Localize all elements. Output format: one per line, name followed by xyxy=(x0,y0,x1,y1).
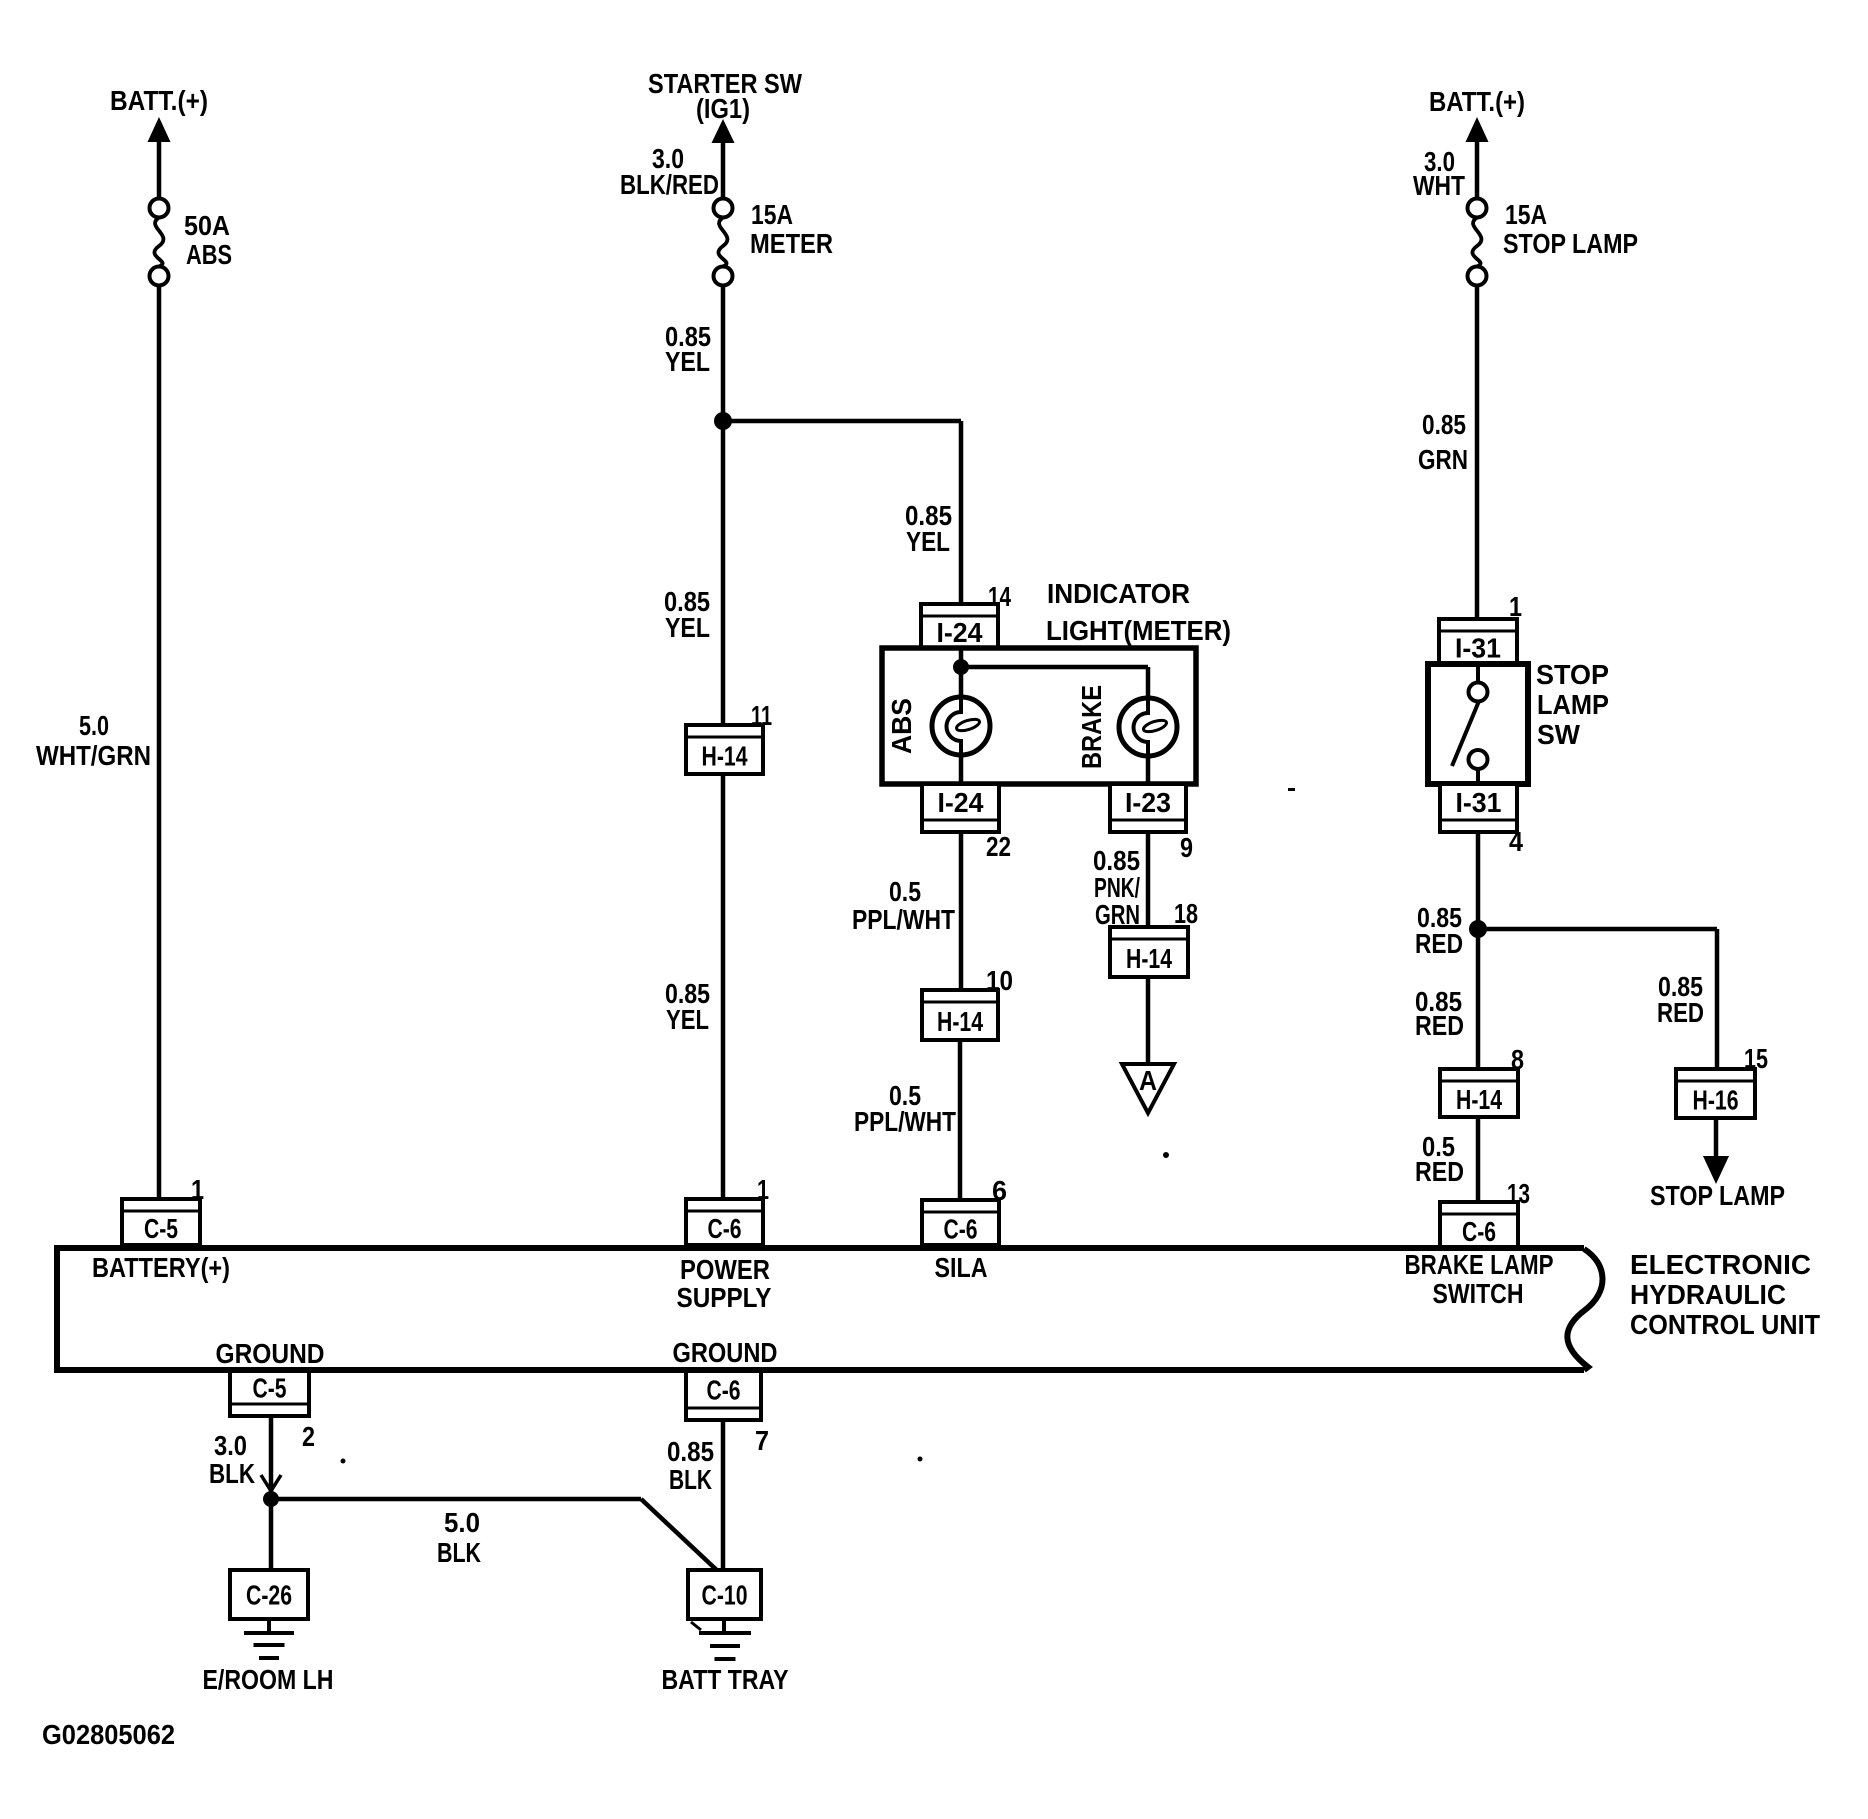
lamp ABS indicator xyxy=(932,697,990,755)
arrow to STOP LAMP xyxy=(1703,1156,1729,1184)
speck xyxy=(1288,788,1295,791)
svg-text:ABS: ABS xyxy=(886,698,917,754)
wire 0.5 PPL/WHT I-24 to H-14 pin 10 xyxy=(959,832,964,990)
svg-text:0.85: 0.85 xyxy=(667,1436,714,1467)
svg-text:BLK: BLK xyxy=(209,1458,255,1489)
svg-text:C-6: C-6 xyxy=(1462,1216,1496,1247)
svg-text:4: 4 xyxy=(1509,826,1523,857)
svg-text:GRN: GRN xyxy=(1418,444,1468,475)
svg-text:0.5: 0.5 xyxy=(889,876,921,907)
svg-text:BLK: BLK xyxy=(669,1464,712,1495)
connector H-14 pin 11 xyxy=(686,725,763,774)
wire ABS lamp to box bottom xyxy=(959,755,964,784)
connector C-6 pin 7 (ground) xyxy=(686,1371,761,1420)
ground symbol BATT TRAY xyxy=(699,1633,751,1659)
svg-text:2: 2 xyxy=(302,1421,315,1452)
connector I-24 pin 22 xyxy=(922,784,999,832)
svg-text:50A: 50A xyxy=(184,210,230,241)
svg-text:INDICATOR: INDICATOR xyxy=(1047,578,1190,609)
connector C-6 pin 1 (power supply) xyxy=(686,1199,763,1245)
svg-text:RED: RED xyxy=(1657,997,1704,1028)
wire 3.0 BLK C-5 to junction xyxy=(269,1416,274,1493)
arrow to BATT.(+) right xyxy=(1466,117,1489,142)
wire 0.85 YEL down to I-24 pin 14 xyxy=(959,421,964,604)
svg-text:22: 22 xyxy=(986,831,1011,862)
svg-text:5.0: 5.0 xyxy=(79,710,109,741)
svg-text:YEL: YEL xyxy=(906,526,950,557)
svg-text:ABS: ABS xyxy=(186,239,232,270)
svg-text:SWITCH: SWITCH xyxy=(1433,1278,1524,1309)
wire 0.85 PNK/GRN I-23 to H-14 pin 18 xyxy=(1146,832,1151,927)
svg-text:POWER: POWER xyxy=(680,1254,770,1285)
fuse 15A STOP LAMP xyxy=(1468,199,1487,286)
svg-text:CONTROL UNIT: CONTROL UNIT xyxy=(1630,1309,1820,1340)
arrow to BATT.(+) left xyxy=(148,117,171,142)
electronic hydraulic control unit U1 box xyxy=(57,1248,1584,1370)
svg-text:I-23: I-23 xyxy=(1125,787,1171,818)
connector I-31 pin 1 xyxy=(1439,619,1517,664)
svg-text:C-6: C-6 xyxy=(944,1214,978,1245)
svg-text:YEL: YEL xyxy=(666,1004,709,1035)
svg-text:LAMP: LAMP xyxy=(1537,689,1609,720)
svg-text:BATT.(+): BATT.(+) xyxy=(110,85,208,116)
connector H-14 pin 10 xyxy=(922,990,998,1040)
svg-text:RED: RED xyxy=(1415,1010,1464,1041)
svg-text:18: 18 xyxy=(1174,898,1198,929)
svg-text:WHT: WHT xyxy=(1413,170,1465,201)
svg-text:WHT/GRN: WHT/GRN xyxy=(36,740,151,771)
svg-text:15A: 15A xyxy=(1505,199,1547,230)
svg-text:STOP LAMP: STOP LAMP xyxy=(1650,1180,1785,1211)
speck xyxy=(1163,1152,1169,1158)
svg-text:C-6: C-6 xyxy=(707,1375,741,1406)
wire 0.85 GRN fuse to I-31 pin 1 xyxy=(1475,285,1480,619)
svg-text:G02805062: G02805062 xyxy=(42,1719,175,1750)
wire H-16 to stop lamp xyxy=(1714,1118,1719,1158)
svg-text:5.0: 5.0 xyxy=(444,1507,480,1538)
wire 0.85 RED down to H-16 pin 15 xyxy=(1715,929,1720,1069)
connector I-23 pin 9 xyxy=(1110,784,1186,832)
wire 5.0 BLK junction to bend xyxy=(271,1497,641,1502)
svg-text:PPL/WHT: PPL/WHT xyxy=(854,1106,956,1137)
svg-text:BATT.(+): BATT.(+) xyxy=(1429,86,1525,117)
wire down to BRAKE lamp xyxy=(1146,667,1151,700)
wire 0.85 RED I-31 to C-6 pin 13 xyxy=(1476,832,1481,1202)
svg-text:METER: METER xyxy=(750,228,833,259)
switch contact xyxy=(1469,750,1488,769)
svg-text:SUPPLY: SUPPLY xyxy=(677,1282,772,1313)
svg-text:A: A xyxy=(1139,1065,1157,1096)
lamp BRAKE indicator xyxy=(1119,698,1177,756)
wire C-10 to ground xyxy=(722,1619,726,1632)
wire 0.85 BLK C-6 to C-10 xyxy=(721,1420,726,1570)
arrowhead into ground junction xyxy=(261,1475,281,1491)
svg-text:H-14: H-14 xyxy=(1456,1084,1502,1115)
svg-text:H-16: H-16 xyxy=(1693,1085,1739,1116)
switch blade xyxy=(1452,701,1479,766)
wire branch to BRAKE lamp xyxy=(961,665,1148,670)
connector H-14 pin 8 xyxy=(1440,1069,1518,1117)
wire 5.0 WHT/GRN fuse to C-5 pin 1 xyxy=(157,285,162,1199)
ground junction xyxy=(263,1491,279,1507)
wire H-14 pin 18 to off-page triangle A xyxy=(1146,977,1151,1064)
svg-text:RED: RED xyxy=(1415,1156,1464,1187)
svg-text:7: 7 xyxy=(755,1425,769,1456)
speck xyxy=(341,1459,346,1464)
svg-text:H-14: H-14 xyxy=(1126,943,1172,974)
connector C-5 pin 1 (battery +) xyxy=(122,1199,200,1245)
connector C-26 xyxy=(230,1570,308,1619)
svg-text:BLK: BLK xyxy=(437,1537,481,1568)
svg-text:SW: SW xyxy=(1537,719,1581,750)
wire 0.85 YEL H-14 to C-6 pin 1 xyxy=(721,774,726,1199)
svg-text:C-10: C-10 xyxy=(702,1580,748,1611)
svg-text:H-14: H-14 xyxy=(702,741,748,772)
wire 5.0 BLK diagonal to C-10 xyxy=(641,1499,722,1575)
svg-text:C-5: C-5 xyxy=(144,1213,178,1244)
svg-text:C-6: C-6 xyxy=(708,1213,742,1244)
svg-text:I-31: I-31 xyxy=(1456,787,1502,818)
off-page connector triangle A xyxy=(1122,1064,1174,1113)
svg-text:BATTERY(+): BATTERY(+) xyxy=(92,1252,230,1283)
svg-text:9: 9 xyxy=(1180,832,1193,863)
svg-text:YEL: YEL xyxy=(665,612,710,643)
svg-text:SILA: SILA xyxy=(935,1252,988,1283)
svg-text:C-5: C-5 xyxy=(253,1373,287,1404)
tick at ground xyxy=(691,1622,701,1630)
arrow to STARTER SW xyxy=(712,119,735,143)
svg-text:STOP: STOP xyxy=(1536,659,1609,690)
connector H-14 pin 18 xyxy=(1110,927,1188,977)
connector H-16 pin 15 xyxy=(1676,1069,1755,1118)
junction of YEL wire branch xyxy=(714,412,732,430)
junction of RED wire branch xyxy=(1469,920,1487,938)
ground symbol E/ROOM LH xyxy=(244,1633,294,1658)
svg-text:15A: 15A xyxy=(751,199,793,230)
speck xyxy=(918,1457,923,1462)
svg-text:GROUND: GROUND xyxy=(673,1337,778,1368)
connector I-31 pin 4 xyxy=(1440,784,1517,832)
svg-text:H-14: H-14 xyxy=(937,1006,983,1037)
connector I-24 pin 14 xyxy=(921,604,998,648)
connector C-6 pin 6 (SILA) xyxy=(922,1200,999,1245)
svg-text:BRAKE LAMP: BRAKE LAMP xyxy=(1405,1249,1554,1280)
fuse 50A ABS xyxy=(150,199,169,286)
wire branch 0.85 RED to H-16 xyxy=(1478,927,1717,932)
svg-text:I-31: I-31 xyxy=(1455,633,1501,664)
svg-text:RED: RED xyxy=(1415,928,1463,959)
svg-text:BATT TRAY: BATT TRAY xyxy=(662,1664,789,1695)
svg-text:BRAKE: BRAKE xyxy=(1076,685,1107,769)
wire 3.0 BLK/RED to fuse 15A METER xyxy=(721,141,726,199)
svg-text:I-24: I-24 xyxy=(938,787,984,818)
indicator light (meter) box xyxy=(882,648,1196,784)
svg-text:PPL/WHT: PPL/WHT xyxy=(852,904,955,935)
svg-text:HYDRAULIC: HYDRAULIC xyxy=(1630,1279,1786,1310)
wire C-26 to ground xyxy=(267,1619,271,1632)
fuse 15A METER xyxy=(714,199,733,286)
connector C-10 xyxy=(688,1570,761,1619)
svg-text:C-26: C-26 xyxy=(246,1580,292,1611)
wire branch to indicator light xyxy=(723,419,961,424)
svg-text:3.0: 3.0 xyxy=(214,1430,247,1461)
wire junction to C-26 xyxy=(269,1499,274,1570)
control unit torn right edge xyxy=(1567,1249,1602,1370)
svg-text:LIGHT(METER): LIGHT(METER) xyxy=(1046,615,1231,646)
stop lamp switch SW box xyxy=(1428,664,1528,784)
svg-text:I-24: I-24 xyxy=(937,617,983,648)
connector C-6 pin 13 (brake lamp switch) xyxy=(1440,1202,1518,1248)
svg-text:GROUND: GROUND xyxy=(216,1338,325,1369)
svg-text:E/ROOM LH: E/ROOM LH xyxy=(203,1664,334,1695)
wire 3.0 WHT to fuse 15A STOP LAMP xyxy=(1475,140,1480,199)
svg-text:YEL: YEL xyxy=(665,346,710,377)
wire BATT to fuse 50A xyxy=(157,140,162,199)
junction inside indicator box xyxy=(953,659,969,675)
connector C-5 pin 2 (ground) xyxy=(230,1371,309,1416)
wire BRAKE lamp to box bottom xyxy=(1146,756,1151,784)
svg-text:BLK/RED: BLK/RED xyxy=(620,169,719,200)
svg-text:ELECTRONIC: ELECTRONIC xyxy=(1630,1249,1811,1280)
wire 0.5 PPL/WHT H-14 to C-6 pin 6 xyxy=(958,1040,963,1200)
svg-text:STOP LAMP: STOP LAMP xyxy=(1503,228,1638,259)
wire inside indicator to ABS lamp xyxy=(959,648,964,699)
svg-text:0.85: 0.85 xyxy=(1422,409,1466,440)
wire 0.85 YEL fuse to H-14 pin 11 xyxy=(721,285,726,725)
